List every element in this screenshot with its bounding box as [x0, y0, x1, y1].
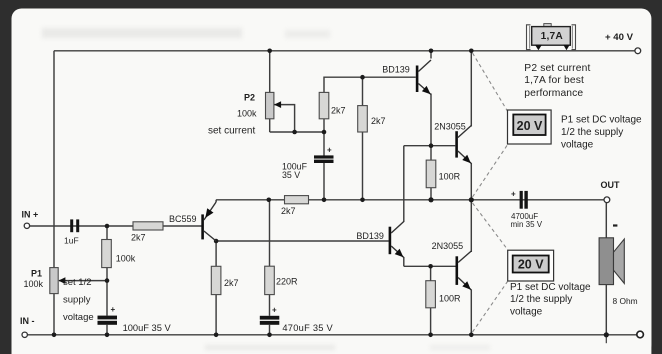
capacitor 100uF input — [98, 305, 172, 333]
svg-text:voltage: voltage — [63, 312, 94, 323]
wire 2N3055b collector vertical to output rail — [470, 200, 472, 252]
svg-text:P1 set DC voltage: P1 set DC voltage — [561, 115, 642, 126]
resistor 2k7 (BD139 base) — [358, 106, 386, 132]
wire BD139b emitter vertical — [403, 257, 405, 266]
wire 100k bias bottom lead to wiper node — [106, 268, 108, 281]
wire 100R lower bottom lead to ground — [430, 308, 432, 335]
resistor 100R upper — [426, 160, 460, 188]
svg-text:+ 40 V: + 40 V — [605, 32, 634, 43]
wire 2N3055a collector vertical to +40V — [470, 51, 472, 127]
svg-text:IN -: IN - — [20, 316, 35, 326]
svg-text:+: + — [511, 190, 516, 199]
svg-text:2k7: 2k7 — [131, 233, 146, 243]
label set 1/2 supply voltage — [63, 277, 94, 323]
svg-text:2k7: 2k7 — [281, 206, 296, 216]
svg-text:100uF 35 V: 100uF 35 V — [123, 323, 172, 333]
wire BC559 collector to BD139b base — [216, 240, 389, 242]
terminal OUT — [604, 197, 610, 203]
svg-text:set 1/2: set 1/2 — [63, 277, 92, 288]
transistor 2N3055 upper — [434, 121, 471, 163]
wire 2k7b bottom lead to output rail — [362, 132, 364, 200]
svg-text:min 35 V: min 35 V — [511, 220, 543, 229]
annotation P1 set DC voltage upper — [561, 115, 642, 151]
svg-text:1/2 the supply: 1/2 the supply — [510, 294, 572, 305]
wire 2N3055a emitter vertical to output rail — [470, 163, 472, 200]
svg-text:voltage: voltage — [510, 306, 543, 317]
resistor 2k7 horizontal (emitter) — [281, 196, 309, 216]
svg-text:1,7A for best: 1,7A for best — [524, 75, 584, 86]
wire 220R top lead from output rail — [269, 200, 271, 266]
capacitor 4700uF output — [511, 190, 543, 230]
svg-text:1/2 the supply: 1/2 the supply — [561, 127, 623, 138]
dashed line output rail to upper 20V meter — [473, 144, 509, 197]
wire 100R lower top lead — [430, 266, 432, 280]
terminal IN+ — [24, 223, 29, 228]
resistor 100k bias — [102, 240, 136, 268]
svg-text:+: + — [111, 305, 116, 314]
wire input rail IN+ to BC559 base — [29, 225, 201, 227]
transistor BC559 — [169, 200, 216, 241]
transistor BD139 upper — [382, 60, 431, 95]
wire BD139a emitter vertical to node — [430, 94, 432, 146]
wire 220R bottom lead to 470uF — [269, 295, 271, 316]
wire 100uF bootstrap top lead — [323, 132, 325, 156]
annotation P2 set current — [524, 63, 590, 99]
wire speaker to ground rail — [605, 285, 607, 335]
svg-text:220R: 220R — [276, 277, 298, 287]
meter 20V upper — [508, 110, 552, 144]
wire P1 wiper to 100k node — [59, 280, 107, 282]
resistor 220R — [265, 266, 298, 294]
wire node y132 P2 bottom to 2k7/100uF node — [270, 131, 324, 133]
svg-text:2N3055: 2N3055 — [432, 241, 464, 251]
faint smudge top-left — [42, 28, 242, 38]
wire output rail — [216, 199, 604, 201]
svg-text:20 V: 20 V — [518, 258, 544, 272]
wire 2k7a top lead to BD139 base rail — [324, 77, 416, 92]
wire 470uF to ground rail — [269, 325, 271, 335]
dashed measurement lines — [473, 53, 509, 332]
svg-text:voltage: voltage — [561, 140, 594, 151]
wire 2k7b top lead — [362, 77, 364, 105]
capacitor 470uF — [260, 306, 334, 333]
dashed line output rail to lower 20V meter — [473, 203, 508, 250]
meter 20V lower — [508, 250, 554, 281]
svg-text:performance: performance — [524, 88, 583, 99]
wire 2N3055b emitter vertical to ground — [470, 290, 472, 335]
speaker 8 Ohm — [599, 224, 638, 305]
potentiometer P1 — [24, 268, 66, 294]
svg-text:100k: 100k — [24, 279, 44, 289]
capacitor 1uF input — [64, 219, 79, 245]
svg-text:P1 set DC voltage: P1 set DC voltage — [510, 282, 591, 293]
svg-text:P2: P2 — [244, 93, 255, 103]
wire OUT terminal down to speaker — [605, 203, 607, 238]
resistor 2k7 (BC559 collector) — [211, 266, 238, 294]
svg-text:2k7: 2k7 — [371, 116, 386, 126]
wire stub below ground at speaker — [605, 335, 607, 343]
svg-text:100R: 100R — [439, 294, 461, 304]
capacitor 100uF bootstrap — [282, 146, 334, 180]
annotation P1 set DC voltage lower — [510, 282, 591, 318]
wire 2k7a bottom lead — [323, 119, 325, 132]
svg-text:BD139: BD139 — [382, 64, 410, 74]
svg-text:BC559: BC559 — [169, 214, 197, 224]
wire P2 wiper jog — [274, 105, 295, 132]
resistor 2k7 (P2 side) — [319, 92, 345, 118]
wire +40V top rail — [54, 50, 635, 52]
wire 100R upper top lead — [430, 146, 432, 160]
svg-text:supply: supply — [63, 295, 91, 306]
svg-text:IN +: IN + — [22, 210, 39, 220]
svg-text:OUT: OUT — [601, 180, 621, 190]
svg-text:2N3055: 2N3055 — [434, 121, 466, 131]
resistor 100R lower — [426, 281, 461, 308]
svg-text:470uF 35 V: 470uF 35 V — [282, 323, 333, 333]
svg-text:35 V: 35 V — [282, 170, 300, 180]
svg-text:set current: set current — [208, 126, 255, 137]
transistor 2N3055 lower — [432, 241, 472, 290]
svg-text:100k: 100k — [237, 109, 257, 119]
wire node145 to 2N3055a base — [404, 145, 456, 147]
resistor 2k7 input horizontal — [131, 222, 163, 243]
svg-text:1uF: 1uF — [64, 236, 79, 246]
terminal IN- — [22, 332, 27, 337]
svg-text:100k: 100k — [116, 254, 136, 264]
wire BC559 collector node down to 2k7c — [215, 241, 217, 266]
wire ground bottom rail — [27, 334, 637, 336]
svg-text:P2 set current: P2 set current — [524, 63, 590, 74]
wire 100k bias resistor top lead — [106, 226, 108, 240]
dashed line ground rail to lower 20V meter — [473, 282, 508, 333]
wire 100R upper bottom lead to output rail — [430, 188, 432, 200]
dashed line +40V rail to upper 20V meter — [473, 53, 509, 112]
terminal +40V — [635, 48, 641, 54]
wire left vertical from +40V to P1 top — [53, 51, 55, 268]
svg-text:+: + — [327, 146, 332, 155]
wire 2k7c bottom to ground — [215, 295, 217, 335]
transistor BD139 lower — [356, 222, 403, 258]
wire wiper node down to 100uF input cap — [106, 281, 108, 316]
svg-text:2k7: 2k7 — [224, 278, 239, 288]
wire P1 bottom to ground rail — [53, 294, 55, 335]
wire P2 top lead — [269, 51, 271, 93]
wire node266 to 2N3055b base — [404, 265, 456, 267]
svg-text:2k7: 2k7 — [331, 106, 346, 116]
svg-text:P1: P1 — [31, 269, 42, 279]
svg-text:100R: 100R — [439, 172, 461, 182]
fuse F1 1,7A — [527, 24, 576, 51]
svg-text:8 Ohm: 8 Ohm — [613, 296, 638, 306]
svg-text:+: + — [272, 306, 277, 315]
wire BD139b collector vertical crossing output rail — [403, 146, 405, 222]
svg-text:BD139: BD139 — [356, 231, 384, 241]
svg-text:20 V: 20 V — [517, 119, 543, 133]
potentiometer P2 — [208, 92, 281, 136]
svg-text:1,7A: 1,7A — [541, 31, 564, 42]
terminal ground right — [637, 331, 644, 338]
wire P2 bottom lead — [269, 119, 271, 132]
wire 100uF input cap to ground rail — [106, 325, 108, 335]
wire BD139a collector vertical to +40V — [430, 51, 432, 59]
wire 100uF bootstrap bottom lead to output rail — [323, 163, 325, 200]
